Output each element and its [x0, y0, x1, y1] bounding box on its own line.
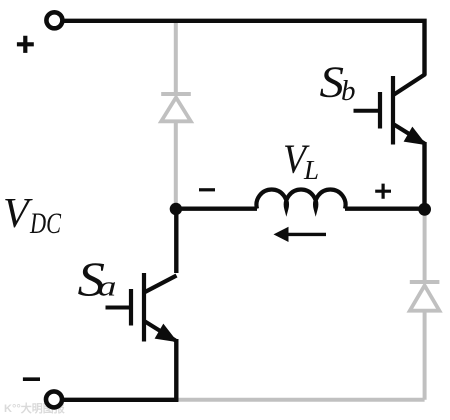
transistor Sa (IGBT) gate lead	[106, 306, 130, 310]
wire: Sb emitter lead down to node B	[422, 142, 426, 209]
transistor Sb collector stroke	[394, 74, 426, 95]
transistor Sa gate bar	[129, 289, 133, 326]
svg-text:V: V	[3, 191, 33, 237]
transistor Sb gate bar	[378, 92, 382, 129]
svg-text:b: b	[341, 75, 356, 107]
node B junction dot	[418, 203, 431, 216]
transistor Sb (IGBT) gate lead	[354, 109, 379, 113]
wire: right freewheel branch upper segment (gray)	[423, 210, 427, 282]
transistor Sa collector stroke	[145, 276, 177, 293]
diode D2 cathode bar	[410, 280, 440, 284]
svg-text:a: a	[98, 272, 117, 303]
transistor Sa emitter arrowhead	[155, 325, 176, 342]
transistor Sb body bar	[391, 76, 395, 145]
label + (inductor right polarity)	[375, 184, 391, 199]
wire: inductor to node B	[345, 206, 425, 210]
transistor Sb emitter arrowhead	[404, 128, 425, 145]
wire: Sa collector lead up to node A	[174, 207, 178, 273]
current arrow (pointing left)	[278, 233, 326, 236]
label + (DC source positive)	[17, 36, 34, 53]
label - (DC source negative)	[23, 377, 40, 381]
wire: node A to inductor	[176, 206, 257, 210]
wire: bottom rail gray segment	[176, 398, 425, 402]
label - (inductor left polarity)	[199, 188, 215, 191]
transistor Sb emitter stroke	[394, 125, 425, 144]
svg-text:DC: DC	[29, 207, 61, 240]
diode D1 triangle (anode below, pointing up)	[161, 98, 191, 122]
wire: left DC-link branch lower segment (gray)	[174, 121, 178, 207]
inductor VL winding	[256, 190, 345, 209]
diode D1 cathode bar	[161, 92, 191, 96]
transistor Sa body bar	[142, 273, 146, 342]
terminal - (bottom input terminal)	[46, 391, 62, 407]
wire: bottom rail black segment from - terminal	[64, 398, 179, 402]
transistor Sa emitter stroke	[145, 322, 176, 341]
diode D2 triangle (anode below, pointing up)	[410, 286, 440, 311]
wire: right freewheel branch lower segment (gray)	[423, 311, 427, 400]
wire: top rail from + terminal to Sb collector	[64, 21, 425, 75]
node A junction dot	[170, 203, 182, 215]
terminal + (top input terminal)	[46, 12, 62, 28]
wire: Sa emitter lead down to bottom rail	[174, 339, 178, 402]
svg-text:L: L	[303, 155, 319, 185]
wire: left DC-link branch upper segment (gray)	[174, 21, 178, 94]
